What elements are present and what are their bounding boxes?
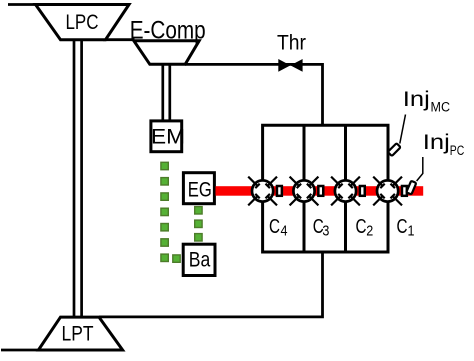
svg-text:2: 2 (366, 224, 373, 240)
svg-text:LPT: LPT (62, 322, 94, 346)
valve Thr (throttle) (277, 32, 306, 72)
electric machine EM (151, 121, 185, 152)
svg-text:C: C (356, 216, 367, 238)
svg-text:Inj: Inj (403, 87, 430, 111)
svg-text:C: C (397, 216, 408, 238)
injector InjMC leader line (400, 115, 406, 144)
injector InjMC nozzle (388, 143, 401, 156)
wire: exhaust duct cylinders to LPT (99, 251, 323, 317)
svg-text:EG: EG (188, 179, 212, 202)
injector InjPC nozzle (406, 181, 416, 195)
wire: LPC outlet duct to E-Comp (103, 38, 135, 41)
svg-text:1: 1 (408, 224, 415, 240)
shaft: E-Comp to EM (double line) (163, 64, 170, 122)
svg-text:3: 3 (322, 224, 329, 240)
cylinder C4 crank circle (248, 177, 282, 206)
svg-text:MC: MC (431, 100, 451, 115)
svg-text:PC: PC (450, 143, 465, 158)
cylinder C1 crank circle (373, 177, 407, 206)
svg-text:Inj: Inj (423, 130, 450, 154)
generator EG (183, 173, 214, 204)
compressor E-Comp (130, 16, 206, 64)
compressor LPC (36, 5, 130, 40)
svg-text:C: C (269, 216, 280, 238)
svg-text:4: 4 (281, 224, 288, 240)
cylinder C3 crank circle (290, 177, 324, 206)
turbine LPT (38, 317, 122, 350)
control line (green dotted): EM to Ba (161, 162, 180, 262)
control line (green dotted): EG to Ba (195, 207, 202, 241)
svg-text:LPC: LPC (66, 10, 99, 34)
battery Ba (183, 244, 215, 275)
cylinder block (263, 125, 388, 252)
wire: exhaust outlet line bottom-left (1, 349, 40, 352)
cylinder C2 crank circle (331, 177, 365, 206)
wire: intake duct E-Comp to manifold via throttle (185, 64, 322, 126)
wire: air inlet line top-left (8, 3, 36, 6)
svg-text:Thr: Thr (277, 32, 306, 55)
injector InjPC leader line (417, 157, 423, 181)
crankshaft (red) (216, 186, 424, 196)
svg-text:EM: EM (151, 125, 185, 148)
svg-text:Ba: Ba (189, 248, 211, 272)
shaft: LPC-LPT turbo shaft (double line) (74, 40, 82, 318)
svg-text:E-Comp: E-Comp (130, 16, 206, 44)
